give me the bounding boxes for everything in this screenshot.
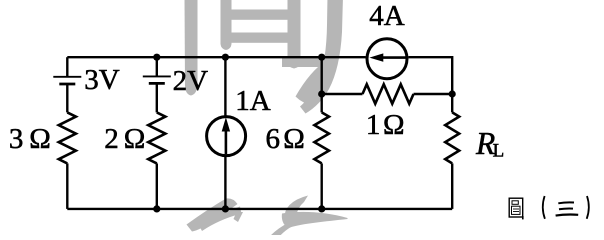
svg-text:3V: 3V (84, 64, 120, 96)
svg-text:2V: 2V (173, 65, 209, 97)
svg-text:Ω: Ω (383, 109, 405, 141)
svg-text:2: 2 (104, 123, 119, 155)
svg-text:3: 3 (9, 123, 24, 155)
svg-text:Ω: Ω (283, 123, 305, 155)
svg-text:Ω: Ω (124, 123, 146, 155)
svg-text:6: 6 (266, 123, 281, 155)
svg-text:1A: 1A (235, 85, 271, 117)
svg-text:L: L (493, 140, 505, 161)
svg-text:1: 1 (366, 109, 381, 141)
svg-text:Ω: Ω (29, 123, 51, 155)
svg-text:4A: 4A (369, 0, 405, 32)
